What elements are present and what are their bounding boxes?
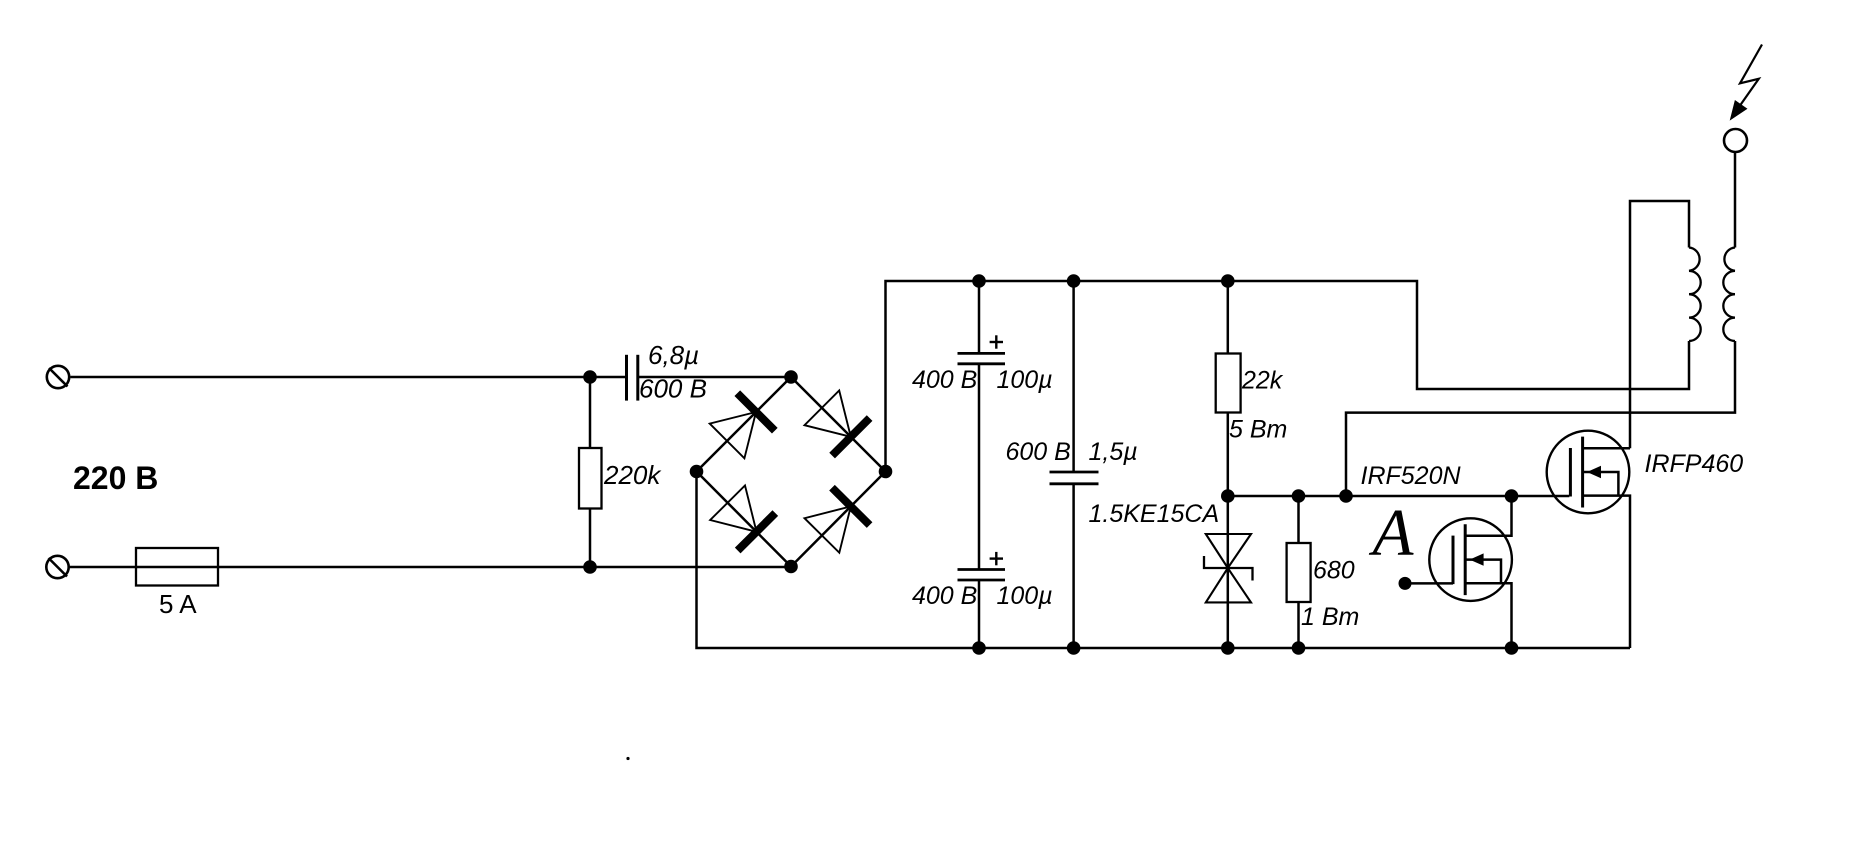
svg-text:IRFP460: IRFP460 [1645,450,1744,478]
svg-text:600 B: 600 B [639,374,707,404]
svg-text:1 Bm: 1 Bm [1301,603,1359,631]
svg-text:A: A [1369,496,1415,570]
svg-text:22k: 22k [1241,367,1284,395]
svg-text:IRF520N: IRF520N [1361,462,1462,490]
svg-text:5 Bm: 5 Bm [1229,416,1287,444]
svg-text:1,5µ: 1,5µ [1089,438,1138,466]
svg-text:600 B: 600 B [1006,438,1071,466]
svg-text:100µ: 100µ [997,582,1053,610]
svg-text:6,8µ: 6,8µ [648,340,699,370]
svg-text:220k: 220k [603,460,662,490]
svg-text:220 B: 220 B [73,460,158,496]
svg-text:680: 680 [1313,557,1355,585]
svg-text:5 A: 5 A [159,589,197,619]
svg-text:1.5KE15CA: 1.5KE15CA [1089,500,1220,528]
svg-text:100µ: 100µ [997,366,1053,394]
svg-text:400 B: 400 B [912,582,977,610]
svg-text:400 B: 400 B [912,366,977,394]
